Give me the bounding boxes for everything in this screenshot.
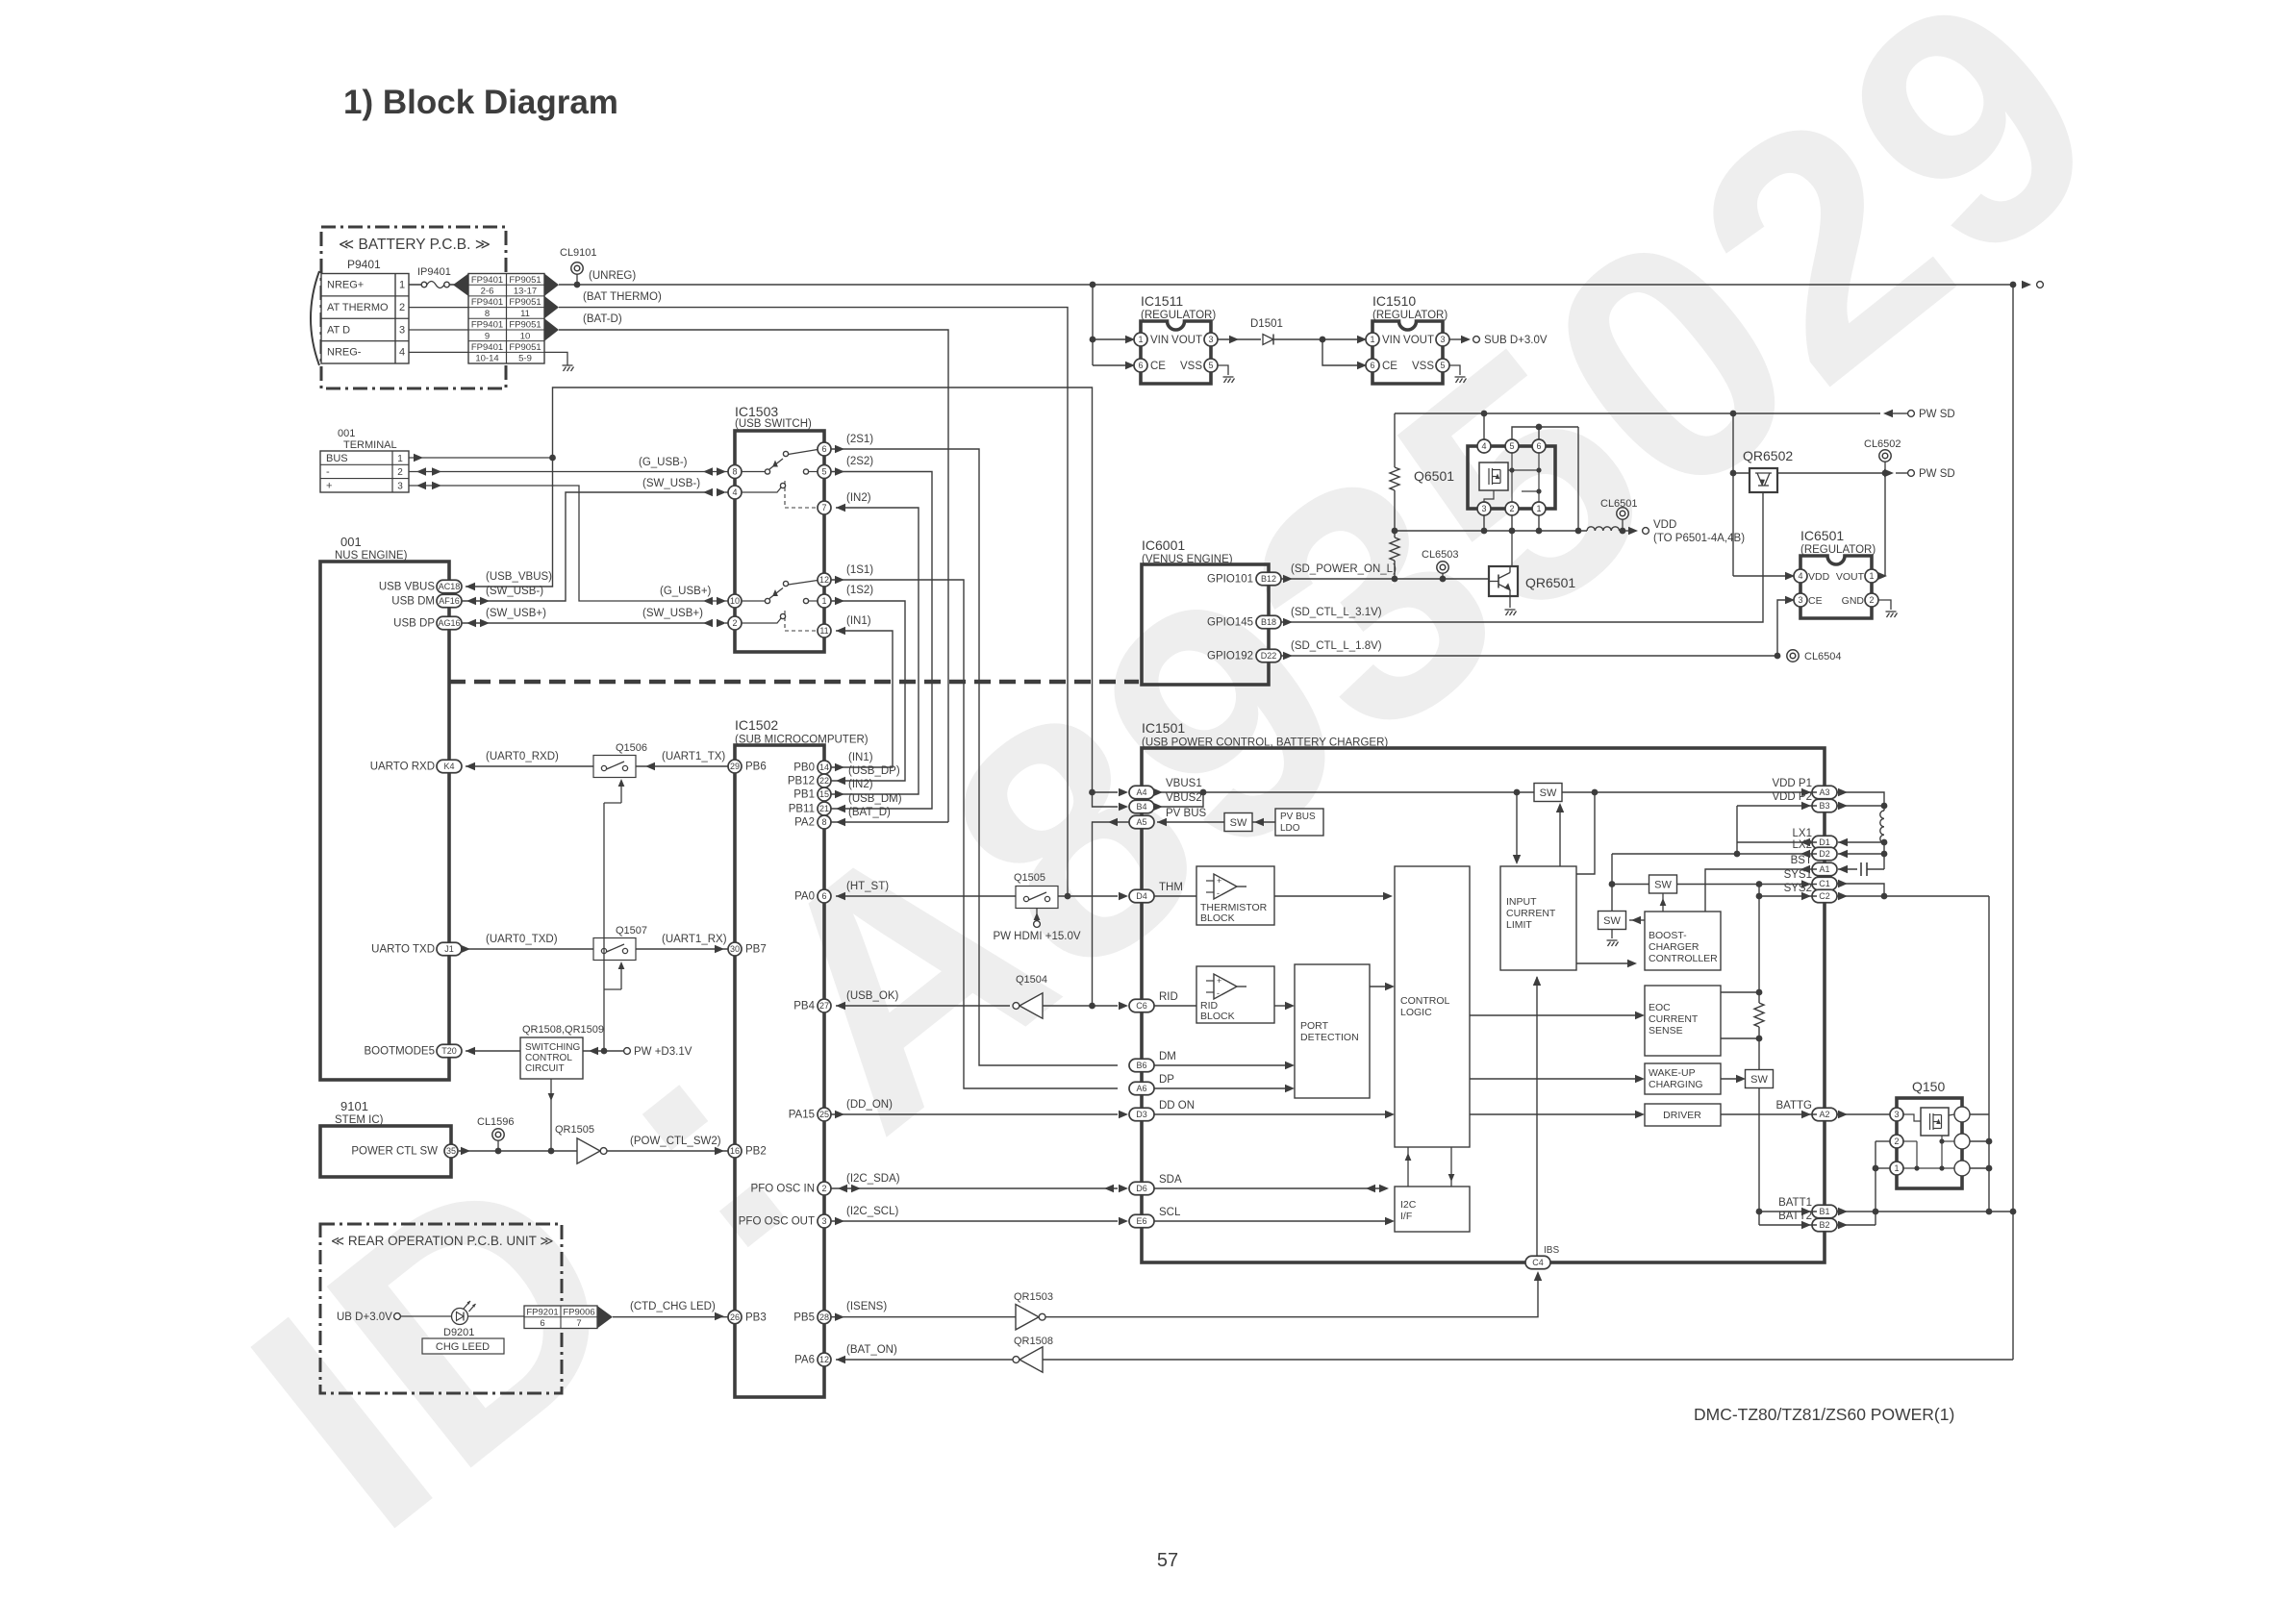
arrow into C4 <box>1534 1271 1542 1281</box>
arrow into CE <box>1125 362 1135 369</box>
IC1501 box <box>1142 748 1825 1262</box>
svg-text:(UNREG): (UNREG) <box>589 270 636 282</box>
svg-text:1: 1 <box>1536 504 1541 513</box>
svg-text:27: 27 <box>819 1001 829 1011</box>
wire BST cap left <box>1838 868 1857 870</box>
svg-text:8: 8 <box>821 817 826 827</box>
wire POW_CTL_SW2 <box>607 1150 728 1152</box>
wire resistor to VDD rail <box>1394 490 1396 531</box>
wire SYS1 row <box>1677 884 1818 886</box>
svg-text:NREG-: NREG- <box>327 347 362 359</box>
svg-text:BOOST-: BOOST- <box>1649 930 1687 941</box>
svg-text:VOUT: VOUT <box>1836 571 1865 583</box>
svg-text:DRIVER: DRIVER <box>1663 1110 1701 1121</box>
transistor QR6502 <box>1750 468 1777 492</box>
svg-text:BOOTMODE5: BOOTMODE5 <box>365 1046 435 1058</box>
arrow into C2 <box>1801 892 1811 900</box>
arrow PD into CL <box>1385 983 1395 990</box>
svg-text:3: 3 <box>1798 595 1802 605</box>
IC1502 pin 29 <box>728 760 742 773</box>
svg-text:2: 2 <box>732 618 737 628</box>
svg-text:UB D+3.0V: UB D+3.0V <box>337 1312 392 1323</box>
svg-text:Q1506: Q1506 <box>616 742 647 754</box>
arrow POW_CTL_SW2 <box>715 1147 724 1155</box>
test point CL9101 <box>571 262 583 274</box>
wire DD_ON <box>831 1113 1118 1115</box>
wire pin3 down <box>1483 515 1485 531</box>
svg-text:(BAT THERMO): (BAT THERMO) <box>583 291 662 303</box>
svg-text:BATT1: BATT1 <box>1778 1197 1812 1209</box>
arrow into VDD <box>1785 572 1795 580</box>
IC1502 pin 25 <box>818 1108 831 1121</box>
svg-text:1: 1 <box>1370 335 1374 344</box>
switch SW vbus <box>1534 784 1562 802</box>
arrow out B12 <box>1283 575 1293 583</box>
IC1501 pin A6 <box>1129 1082 1154 1095</box>
svg-text:5-9: 5-9 <box>518 354 532 364</box>
IC1502 pin 12 <box>818 1353 831 1366</box>
wire SD_POWER_ON_L <box>1281 578 1489 580</box>
svg-text:DMC-TZ80/TZ81/ZS60 POWER(1): DMC-TZ80/TZ81/ZS60 POWER(1) <box>1694 1405 1954 1424</box>
Q150 pad top <box>1954 1107 1970 1122</box>
wire BATT1 row <box>1759 1211 1817 1212</box>
svg-text:FP9051: FP9051 <box>509 297 541 308</box>
svg-text:4: 4 <box>732 487 737 497</box>
svg-text:(SD_CTL_L_3.1V): (SD_CTL_L_3.1V) <box>1291 607 1382 618</box>
wire UNREG to IC1511 <box>1092 285 1094 365</box>
svg-text:30: 30 <box>730 944 740 954</box>
svg-text:2: 2 <box>1869 595 1874 605</box>
svg-text:BATTG: BATTG <box>1776 1100 1813 1112</box>
svg-text:IC1501: IC1501 <box>1142 720 1185 736</box>
wire BST cap right <box>1867 868 1884 870</box>
svg-text:25: 25 <box>819 1110 829 1119</box>
wire Q1506 control stem <box>604 802 621 804</box>
arrow 2S1 <box>835 445 844 453</box>
IC1510 pin6 <box>1366 359 1379 372</box>
svg-text:PA0: PA0 <box>794 891 815 903</box>
IC1502 pin 6 <box>818 889 831 903</box>
arrow LDO to SW <box>1254 818 1264 826</box>
switch SW boost gnd <box>1599 912 1626 930</box>
svg-text:1: 1 <box>1894 1163 1899 1173</box>
wire SD_CTL_L_3.1V <box>1281 492 1763 622</box>
svg-text:(SW_USB+): (SW_USB+) <box>642 608 703 619</box>
arrow into D1 <box>1800 838 1810 846</box>
svg-text:(TO P6501-4A,4B): (TO P6501-4A,4B) <box>1653 533 1745 544</box>
wire IC1510 VSS ground <box>1449 365 1460 375</box>
svg-text:(UART1_TX): (UART1_TX) <box>662 751 725 762</box>
wire BATT vertical <box>1875 1141 1876 1225</box>
IC1503 pin 12 <box>818 573 831 587</box>
wire pin5 top <box>1512 427 1578 439</box>
boost charger controller box <box>1645 912 1721 970</box>
wire PD to control logic <box>1370 986 1387 987</box>
wire ISENS <box>831 1316 1016 1318</box>
wire VBUS2 in <box>1093 792 1119 807</box>
svg-text:(BAT-D): (BAT-D) <box>583 313 622 325</box>
arrows at IC1503 pin8 <box>717 467 726 475</box>
wire SYS to resistor <box>1758 885 1760 1004</box>
wire boost to SW <box>1662 894 1664 912</box>
arrow DD ON into CL <box>1385 1111 1395 1118</box>
arrow VOUT IC1511 <box>1229 336 1239 343</box>
svg-text:IC1510: IC1510 <box>1372 293 1416 309</box>
svg-text:PB6: PB6 <box>745 762 767 773</box>
svg-text:B3: B3 <box>1819 801 1829 811</box>
IC1511 pin6 <box>1134 359 1147 372</box>
svg-text:D1501: D1501 <box>1250 318 1283 330</box>
wire PW SD rail <box>1395 412 1880 414</box>
IC1502 pin 21 <box>818 802 831 815</box>
pin B12 <box>1256 572 1281 586</box>
IC1503 internal switch lower <box>742 600 765 602</box>
LED D9201 <box>452 1301 476 1325</box>
Q150 MOSFET <box>1921 1108 1949 1136</box>
wire NREG- <box>409 351 468 353</box>
wire VOUT up <box>1884 473 1886 576</box>
Q150 external wires <box>1970 1113 1989 1115</box>
svg-text:PB11: PB11 <box>789 804 815 815</box>
pin D22 <box>1256 649 1281 662</box>
arrow VDD <box>1628 527 1638 535</box>
svg-text:QR6501: QR6501 <box>1525 575 1575 590</box>
svg-text:PB4: PB4 <box>793 1001 815 1012</box>
Q150 pin 3 <box>1890 1108 1903 1121</box>
RID block <box>1196 966 1274 1023</box>
IC1501 pin C1 <box>1812 877 1837 890</box>
svg-text:12: 12 <box>819 1355 829 1364</box>
wire ISENS to C4 <box>1045 1275 1538 1317</box>
svg-text:3: 3 <box>821 1216 826 1226</box>
wire EOC to resistor top <box>1721 991 1759 993</box>
svg-text:IC6501: IC6501 <box>1800 528 1844 543</box>
svg-text:PB0: PB0 <box>793 762 815 774</box>
svg-text:(I2C_SDA): (I2C_SDA) <box>846 1173 900 1185</box>
resistor R lower <box>1390 537 1399 561</box>
svg-text:4: 4 <box>1481 441 1486 451</box>
svg-text:≪ BATTERY P.C.B. ≫: ≪ BATTERY P.C.B. ≫ <box>339 237 491 253</box>
arrow UART1_RX <box>715 945 724 953</box>
arrow into K4 <box>466 762 475 770</box>
test point CL6504 <box>1787 650 1799 662</box>
op-amp RID <box>1206 974 1246 999</box>
wire BATTG row <box>1721 1113 1817 1115</box>
IC1501 pin D4 <box>1129 889 1154 903</box>
svg-text:(UART0_TXD): (UART0_TXD) <box>486 934 558 945</box>
arrow into B4 <box>1119 803 1128 811</box>
svg-text:B18: B18 <box>1261 617 1276 627</box>
svg-text:001: 001 <box>338 428 355 439</box>
arrow into driver <box>1635 1111 1645 1118</box>
svg-text:-: - <box>1217 888 1220 898</box>
arrow into A2 <box>1801 1111 1811 1118</box>
svg-text:(SW_USB+): (SW_USB+) <box>486 608 546 619</box>
svg-text:3: 3 <box>1894 1110 1899 1119</box>
wire BUS <box>409 457 553 459</box>
Q6501 pin 6 <box>1532 439 1546 453</box>
svg-text:E6: E6 <box>1136 1216 1146 1226</box>
wire VDD P1 row <box>1562 791 1817 793</box>
Q150 pad bottom <box>1954 1161 1970 1176</box>
arrow into C6 <box>1119 1002 1128 1010</box>
svg-text:VSS: VSS <box>1412 361 1434 372</box>
arrow into A5 inside <box>1157 818 1167 826</box>
ground IC1510 <box>1455 377 1467 383</box>
svg-text:(G_USB+): (G_USB+) <box>660 586 712 597</box>
arrow into ICL top <box>1513 855 1521 864</box>
wire BATT2 out <box>1837 1224 1876 1226</box>
svg-text:(G_USB-): (G_USB-) <box>639 457 688 468</box>
svg-text:CURRENT: CURRENT <box>1649 1013 1699 1025</box>
svg-text:CHARGER: CHARGER <box>1649 941 1699 953</box>
svg-text:22: 22 <box>819 776 829 786</box>
svg-text:DM: DM <box>1159 1051 1176 1062</box>
switch SW sys <box>1649 875 1677 893</box>
svg-text:6: 6 <box>821 444 826 454</box>
port detection box <box>1295 964 1370 1098</box>
wire SD_CTL_L_1.8V <box>1281 655 1777 657</box>
IC1501 pin D2 <box>1812 847 1837 861</box>
fuse IP9401 <box>409 284 421 286</box>
svg-text:A6: A6 <box>1136 1084 1146 1093</box>
svg-text:PB5: PB5 <box>793 1312 815 1323</box>
IC1503 internal switch upper <box>742 471 765 473</box>
svg-text:28: 28 <box>819 1312 829 1322</box>
arrow into A3 <box>1801 788 1811 796</box>
arrow into A1 <box>1800 865 1810 873</box>
IC1502 pin 26 <box>728 1311 742 1324</box>
wire QR6502 out <box>1777 472 1885 474</box>
svg-text:QR1508,QR1509: QR1508,QR1509 <box>522 1024 604 1036</box>
arrows I2C_SDA <box>851 1185 861 1192</box>
test point CL6503 <box>1437 562 1448 573</box>
wire QR6501 collector <box>1511 531 1513 566</box>
svg-text:-: - <box>326 466 330 478</box>
arrow out of A2 <box>1838 1111 1848 1118</box>
svg-text:SW: SW <box>1540 787 1557 799</box>
svg-text:(DD_ON): (DD_ON) <box>846 1099 893 1111</box>
svg-text:TERMINAL: TERMINAL <box>343 439 397 451</box>
svg-text:A4: A4 <box>1136 787 1146 797</box>
arrow out B18 <box>1283 618 1293 626</box>
capacitor C bst <box>1860 862 1862 876</box>
svg-text:CL6503: CL6503 <box>1422 549 1459 561</box>
svg-text:SCL: SCL <box>1159 1207 1181 1218</box>
wire SW to ICL <box>1559 808 1561 866</box>
svg-text:C1: C1 <box>1819 879 1830 888</box>
svg-text:A2: A2 <box>1819 1110 1829 1119</box>
svg-text:IC1502: IC1502 <box>735 717 778 733</box>
svg-text:QR1503: QR1503 <box>1014 1291 1053 1303</box>
connector P9401 table <box>321 274 409 364</box>
arrows SDA at I2C <box>1379 1185 1389 1192</box>
svg-text:GPIO192: GPIO192 <box>1207 651 1253 662</box>
svg-text:(SW_USB-): (SW_USB-) <box>486 586 543 597</box>
svg-text:+: + <box>1217 876 1221 886</box>
IC1501 pin C6 <box>1129 999 1154 1012</box>
wire VDD in <box>1733 575 1787 577</box>
wire DM <box>1154 1064 1287 1066</box>
svg-text:CL6501: CL6501 <box>1600 498 1638 510</box>
wire VDD P2 to LX <box>1736 806 1738 854</box>
IC1502 pin 14 <box>818 761 831 774</box>
wire UART0_TXD <box>462 948 593 950</box>
arrow out of B1 <box>1838 1208 1848 1215</box>
svg-text:IBS: IBS <box>1544 1245 1559 1256</box>
arrows at IC1503 pin4 <box>717 488 726 496</box>
svg-text:CE: CE <box>1150 361 1166 372</box>
connector arrows out of FP table <box>544 274 559 296</box>
svg-text:PW HDMI +15.0V: PW HDMI +15.0V <box>993 931 1080 942</box>
inverter QR1503 <box>1016 1305 1045 1330</box>
svg-text:CL9101: CL9101 <box>560 247 597 259</box>
arrow out of A5 <box>1108 818 1118 826</box>
resistor R eoc <box>1754 1003 1764 1027</box>
arrows at AF16 <box>480 597 490 605</box>
Q1505 control stem <box>1036 909 1038 922</box>
wire SCL row <box>1154 1220 1387 1222</box>
svg-text:-: - <box>1217 988 1220 998</box>
wire BAT-D <box>559 330 948 822</box>
svg-text:GND: GND <box>1842 595 1865 607</box>
IC1503 pin 11 <box>818 624 831 637</box>
IC1503 box <box>735 431 824 652</box>
svg-text:LOGIC: LOGIC <box>1400 1007 1432 1018</box>
arrow into T20 <box>466 1047 475 1055</box>
wire SYS2 out <box>1837 895 1989 897</box>
svg-text:USB DM: USB DM <box>391 596 435 608</box>
wire pin6 up <box>1538 427 1540 439</box>
wire I2C_SCL <box>831 1220 1118 1222</box>
Q6501 pin 1 <box>1532 502 1546 515</box>
wire to IC1510 VIN <box>1322 338 1359 340</box>
svg-text:11: 11 <box>520 309 530 319</box>
svg-text:CE: CE <box>1808 595 1823 607</box>
svg-text:K4: K4 <box>443 762 454 771</box>
arrow out of B2 <box>1838 1221 1848 1229</box>
svg-text:INPUT: INPUT <box>1506 896 1537 908</box>
wire VBUS1 in <box>1093 791 1119 793</box>
Q6501 pin 3 <box>1477 502 1491 515</box>
wire HT_ST <box>836 895 1016 897</box>
svg-text:CHARGING: CHARGING <box>1649 1079 1703 1090</box>
svg-text:(USB_DM): (USB_DM) <box>848 793 902 805</box>
arrow into boost <box>1627 960 1637 967</box>
svg-text:(2S1): (2S1) <box>846 434 873 445</box>
pin 35 <box>444 1144 458 1158</box>
arrow into D1 outside <box>1838 838 1848 846</box>
arrow into CE <box>1785 596 1795 604</box>
svg-text:Q6501: Q6501 <box>1414 468 1454 484</box>
wire BAT_D stub <box>831 821 948 823</box>
wire BST row <box>1705 869 1817 912</box>
svg-text:D6: D6 <box>1136 1184 1147 1193</box>
svg-text:PB2: PB2 <box>745 1146 767 1158</box>
IC1501 pin A3 <box>1812 786 1837 799</box>
wire LX1 out <box>1838 841 1884 843</box>
arrows at IC1503 pin10 <box>717 597 726 605</box>
IC1502 pin 8 <box>818 815 831 829</box>
IC1502 pin 28 <box>818 1311 831 1324</box>
svg-text:(SW_USB-): (SW_USB-) <box>642 478 700 489</box>
svg-text:10-14: 10-14 <box>475 354 498 364</box>
svg-text:7: 7 <box>576 1318 581 1329</box>
svg-text:15: 15 <box>819 789 829 799</box>
wire CL to wakeup <box>1470 1078 1637 1080</box>
svg-text:(1S2): (1S2) <box>846 585 873 596</box>
switch Q1507 <box>593 938 636 961</box>
wire RID in <box>1154 1005 1196 1007</box>
arrow PW SD <box>1883 410 1893 417</box>
arrow into A1 outside <box>1838 865 1848 873</box>
svg-text:IP9401: IP9401 <box>417 266 451 278</box>
svg-text:VBUS1: VBUS1 <box>1166 778 1202 789</box>
svg-text:5: 5 <box>1509 441 1514 451</box>
Q150 pad mid <box>1954 1134 1970 1149</box>
wire B3 join <box>1837 805 1884 807</box>
svg-text:FP9051: FP9051 <box>509 342 541 353</box>
svg-text:(ISENS): (ISENS) <box>846 1301 887 1312</box>
svg-text:CURRENT: CURRENT <box>1506 908 1556 919</box>
wire PV BUS to Q1504 <box>1093 822 1130 1006</box>
wire thermistor to control logic <box>1274 895 1385 897</box>
connector arrow into FP table <box>453 274 468 296</box>
wire THM <box>1058 895 1118 897</box>
wire BATT2 row <box>1759 1224 1817 1226</box>
wire to BATT rows <box>1758 1088 1760 1226</box>
arrow out of VOUT <box>1877 572 1887 580</box>
svg-text:B6: B6 <box>1136 1061 1146 1070</box>
arrow out pin14 <box>835 763 844 771</box>
inductor L batt <box>1880 811 1884 843</box>
arrow SUB D+3.0V <box>1461 336 1471 343</box>
test point CL6502 <box>1879 450 1891 462</box>
IC1511 pin1 <box>1134 333 1147 346</box>
arrow out of C2 <box>1838 892 1848 900</box>
wire LX2 out <box>1838 853 1884 855</box>
arrow DM into PD <box>1285 1062 1295 1069</box>
svg-text:(BAT_D): (BAT_D) <box>848 807 891 818</box>
svg-text:1: 1 <box>821 596 826 606</box>
pin T20 <box>437 1044 462 1058</box>
svg-text:(I2C_SCL): (I2C_SCL) <box>846 1206 898 1217</box>
svg-text:PW +D3.1V: PW +D3.1V <box>634 1046 692 1058</box>
wire LX2 row <box>1612 853 1817 855</box>
svg-text:3: 3 <box>1440 335 1445 344</box>
svg-text:UARTO TXD: UARTO TXD <box>371 944 435 956</box>
wire VBUS2 join <box>1154 792 1203 807</box>
IC1502 box <box>735 745 824 1397</box>
IC1501 pin A1 <box>1812 862 1837 876</box>
wire 2S2 to USB_DM <box>831 472 932 810</box>
wire D1501 to IC1510 <box>1273 338 1322 340</box>
IC1501 pin B3 <box>1812 799 1837 812</box>
svg-text:P9401: P9401 <box>347 258 381 271</box>
IC1502 pin 16 <box>728 1144 742 1158</box>
wire LX2 vertical <box>1611 854 1613 912</box>
wire BATT1 out <box>1837 1211 2013 1212</box>
IC1511 pin5 <box>1204 359 1218 372</box>
wire BAT THERMO <box>559 308 1068 896</box>
svg-text:AC18: AC18 <box>439 582 461 591</box>
wire SYS2 row <box>1759 895 1817 897</box>
svg-text:LIMIT: LIMIT <box>1506 919 1532 931</box>
wire SW_USB- <box>462 492 707 601</box>
svg-text:CIRCUIT: CIRCUIT <box>525 1063 565 1074</box>
IC1502 pin 27 <box>818 999 831 1012</box>
IC6501 pin 4 <box>1794 569 1807 583</box>
